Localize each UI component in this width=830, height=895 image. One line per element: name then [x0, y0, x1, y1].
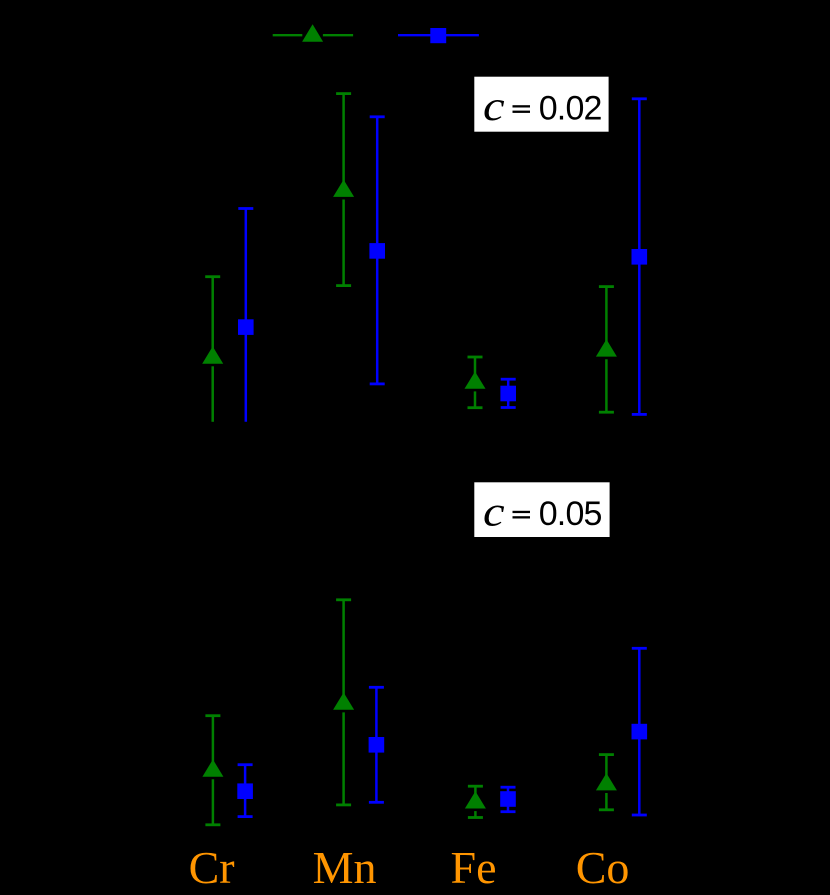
bottom panel: Co blue errorbar — [632, 648, 647, 815]
top panel: Mn blue errorbar — [370, 117, 385, 384]
top panel: Fe green errorbar — [468, 357, 483, 408]
svg-text:Fe: Fe — [451, 842, 497, 893]
bottom panel: Co green triangle — [596, 773, 617, 790]
bottom panel: Fe blue square — [500, 791, 516, 807]
bottom panel: Cr green errorbar — [205, 716, 220, 825]
top panel: Co green errorbar — [599, 287, 614, 413]
top panel: Co green triangle — [596, 339, 617, 356]
bottom panel: Mn green triangle — [333, 693, 354, 710]
bottom panel: Cr blue square — [237, 783, 253, 799]
annotation box c = 0.02 — [474, 77, 608, 132]
annotation box c = 0.05 — [474, 482, 609, 537]
svg-text:0.02: 0.02 — [539, 90, 602, 128]
bottom panel: Fe green errorbar — [468, 786, 483, 817]
bottom panel: Mn green errorbar — [336, 600, 351, 805]
svg-text:c: c — [483, 488, 505, 535]
svg-text:Mn: Mn — [313, 842, 377, 893]
legend series 1 line (green) — [273, 34, 303, 36]
top panel: Mn green errorbar — [336, 94, 351, 286]
top panel: Co blue errorbar — [632, 99, 647, 415]
top panel: Fe blue square — [500, 386, 516, 402]
top panel: Cr green triangle — [202, 346, 223, 363]
top panel: Fe green triangle — [465, 372, 486, 389]
legend series 2 line (blue) — [398, 34, 479, 36]
bottom panel: Cr green triangle — [202, 759, 223, 776]
bottom panel: Cr blue errorbar — [238, 765, 253, 817]
bottom panel: Mn blue errorbar — [369, 687, 384, 802]
legend series 2 marker (blue square) — [430, 28, 446, 43]
top panel: Mn blue square — [369, 243, 385, 259]
svg-text:Cr: Cr — [189, 842, 235, 893]
svg-text:c: c — [483, 82, 505, 129]
bottom panel: Fe green triangle — [465, 791, 486, 808]
svg-text:0.05: 0.05 — [539, 495, 602, 533]
legend series 1 marker (green triangle) — [302, 24, 323, 42]
top panel: Cr green errorbar — [205, 277, 220, 422]
top panel: Mn green triangle — [333, 180, 354, 197]
bottom panel: Mn blue square — [369, 737, 385, 753]
top panel: Co blue square — [632, 249, 648, 265]
bottom panel: Co blue square — [632, 724, 648, 740]
bottom panel: Co green errorbar — [599, 755, 614, 810]
svg-text:Co: Co — [576, 842, 630, 893]
top panel: Cr blue errorbar — [238, 209, 253, 422]
top panel: Fe blue errorbar — [501, 379, 516, 407]
top panel: Cr blue square — [238, 319, 254, 335]
bottom panel: Fe blue errorbar — [501, 787, 516, 812]
